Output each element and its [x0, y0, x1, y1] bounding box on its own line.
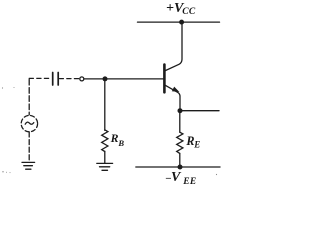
- svg-text:R: R: [185, 134, 194, 148]
- speckle marks: [2, 87, 217, 175]
- svg-text:B: B: [117, 138, 124, 148]
- transistor Q1: [164, 65, 180, 111]
- node Vee junction: [178, 165, 183, 170]
- label RE: [185, 134, 200, 150]
- wire dashed input horizontal: [29, 77, 51, 79]
- wire RB to ground: [104, 151, 106, 163]
- wire top +Vcc rail: [138, 21, 220, 23]
- ground (source): [22, 162, 35, 169]
- source Vs: [21, 115, 37, 131]
- node emitter junction: [178, 108, 183, 113]
- node base junction: [103, 76, 108, 81]
- label +Vcc: [166, 1, 196, 17]
- ground (RB): [97, 163, 113, 170]
- resistor RB: [102, 130, 108, 152]
- svg-text:CC: CC: [182, 7, 196, 17]
- wire dashed source to ground: [28, 132, 30, 162]
- wire RB vertical: [104, 79, 106, 130]
- wire dashed capacitor to terminal: [60, 78, 80, 80]
- wire base: [84, 78, 163, 80]
- svg-text:EE: EE: [182, 177, 196, 187]
- label RB: [110, 131, 125, 148]
- wire dashed input vertical: [28, 78, 30, 114]
- wire emitter to RE: [179, 111, 181, 133]
- svg-text:–V: –V: [165, 170, 182, 185]
- svg-text:R: R: [110, 131, 119, 145]
- node Vcc junction: [179, 20, 184, 25]
- resistor RE: [177, 132, 183, 153]
- svg-text:E: E: [193, 139, 200, 149]
- wire RE to -Vee rail: [179, 153, 181, 167]
- node input terminal: [80, 77, 84, 81]
- wire collector: [165, 22, 182, 71]
- capacitor C: [53, 73, 59, 86]
- wire bottom -Vee rail: [136, 166, 220, 168]
- label -Vee: [165, 170, 197, 187]
- wire output: [180, 110, 219, 112]
